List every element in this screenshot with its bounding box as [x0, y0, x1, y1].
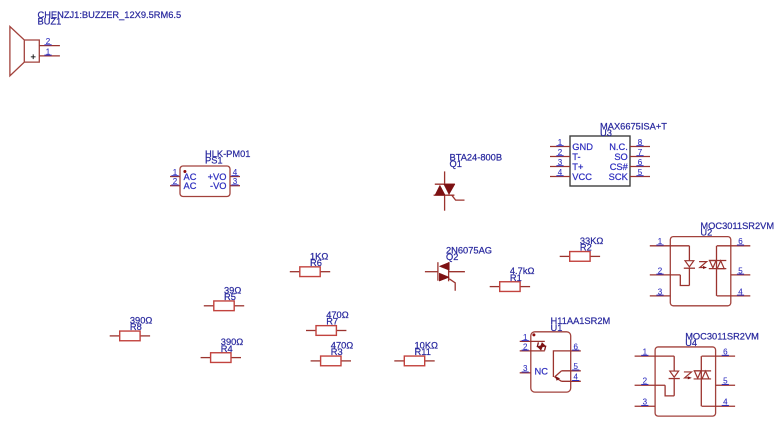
wire Q1 gate — [452, 195, 465, 200]
wire PS1 pin 2 — [170, 185, 180, 187]
wire U4 pin 5 — [716, 384, 736, 386]
U2 cathode step wire — [680, 275, 689, 286]
R8 body — [120, 331, 140, 341]
BUZ1 speaker body — [10, 27, 39, 76]
svg-text:-VO: -VO — [210, 181, 227, 191]
U1 phototransistor base lead — [553, 351, 570, 377]
wire U1 pin 5 — [562, 370, 581, 372]
U2 triac bottom bar — [709, 268, 727, 270]
svg-text:AC: AC — [184, 181, 197, 191]
svg-text:CS#: CS# — [610, 162, 629, 172]
power module PS1 — [170, 149, 250, 196]
U4 body — [655, 347, 716, 416]
svg-text:T+: T+ — [572, 162, 583, 172]
wire PS1 pin 4 — [230, 176, 240, 178]
svg-text:R11: R11 — [415, 347, 431, 357]
PS1 pin-1 dot — [183, 170, 186, 173]
U4 LED cathode bar — [669, 378, 680, 380]
svg-text:R2: R2 — [580, 243, 592, 253]
svg-text:R3: R3 — [331, 347, 343, 357]
Q2 right bar — [448, 262, 450, 281]
wire U3 pin 8 — [630, 146, 650, 148]
U2 triac top bar — [709, 260, 727, 262]
wire Q2 left terminal — [425, 271, 438, 273]
wire U1 pin 1 — [520, 340, 545, 342]
wire left lead — [306, 330, 316, 332]
wire U1 pin 4 — [562, 380, 581, 382]
resistor R7 — [306, 310, 349, 335]
resistor R3 — [311, 340, 354, 365]
U3 body — [570, 136, 630, 186]
wire right lead — [341, 360, 351, 362]
R11 body — [404, 356, 424, 366]
U2 light arrow — [699, 262, 707, 268]
wire U2 pin 2 — [650, 274, 681, 276]
Q1 triangle down — [444, 184, 455, 194]
U4 light arrow — [684, 372, 692, 378]
U2 LED anode lead — [688, 246, 690, 261]
svg-text:R5: R5 — [224, 292, 236, 302]
U4 triac bottom bar — [694, 378, 712, 380]
U4 triac triangle down — [694, 371, 701, 378]
svg-text:SO: SO — [614, 152, 627, 162]
resistor R1 — [490, 266, 535, 291]
svg-text:U1: U1 — [551, 323, 563, 333]
wire Q1 bottom terminal — [444, 195, 446, 211]
wire left lead — [490, 286, 500, 288]
wire U3 pin 3 — [550, 166, 570, 168]
wire left lead — [201, 357, 211, 359]
U1 body — [531, 332, 571, 392]
optocoupler U1 — [520, 316, 611, 392]
svg-text:R6: R6 — [310, 258, 322, 268]
U1 back-to-back LED pair — [540, 342, 546, 347]
R5 body — [214, 301, 234, 311]
svg-text:N.C.: N.C. — [609, 142, 628, 152]
svg-text:U3: U3 — [600, 128, 612, 138]
svg-text:R8: R8 — [130, 322, 142, 332]
wire right lead — [140, 335, 150, 337]
U4 LED anode lead — [673, 356, 675, 371]
resistor R11 — [394, 340, 438, 365]
wire U1 pin 6 — [571, 350, 581, 352]
resistor R5 — [204, 285, 244, 310]
resistor R6 — [290, 251, 330, 276]
wire BUZ1 pin 2 — [39, 45, 60, 47]
R1 body — [500, 282, 520, 292]
U2 light arrow head — [703, 266, 707, 269]
wire left lead — [394, 360, 404, 362]
wire Q2 right terminal — [449, 271, 465, 273]
wire BUZ1 pin 1 — [39, 55, 60, 57]
opto-triac U4 — [635, 331, 759, 416]
U2 LED cathode lead — [688, 268, 690, 285]
svg-text:SCK: SCK — [609, 172, 629, 182]
U1 phototransistor collector — [555, 371, 562, 377]
U4 light arrow head — [688, 376, 692, 379]
U2 triac triangle down — [710, 261, 717, 268]
wire U2 pin 4 — [717, 295, 751, 297]
svg-text:U4: U4 — [685, 338, 697, 348]
wire right lead — [234, 305, 244, 307]
wire right lead — [425, 360, 435, 362]
wire U3 pin 5 — [630, 176, 650, 178]
R3 body — [321, 356, 341, 366]
triac Q1 — [434, 153, 502, 211]
svg-text:T-: T- — [572, 152, 580, 162]
svg-text:R7: R7 — [326, 317, 338, 327]
resistor R4 — [201, 337, 244, 362]
U2 body — [670, 237, 731, 306]
svg-text:Q2: Q2 — [446, 252, 458, 262]
wire U3 pin 1 — [550, 146, 570, 148]
opto-triac U2 — [650, 221, 774, 306]
U1 phototransistor emitter — [555, 377, 562, 381]
U1 pin-1 dot — [532, 333, 535, 336]
svg-text:BUZ1: BUZ1 — [38, 17, 62, 27]
Q2 triangle right — [439, 273, 449, 281]
wire right lead — [336, 330, 346, 332]
svg-text:PS1: PS1 — [205, 156, 223, 166]
U1 emitter arrow head — [555, 376, 560, 381]
wire U4 pin 3 — [635, 405, 656, 407]
wire U4 pin 6 — [702, 355, 736, 357]
U4 triac main line — [700, 356, 702, 406]
triac Q2 — [425, 246, 492, 291]
Q1 triangle up — [435, 185, 445, 195]
Q1 bottom bar — [434, 194, 455, 196]
wire U2 pin 1 — [650, 245, 690, 247]
U4 triac top bar — [694, 370, 712, 372]
svg-text:Q1: Q1 — [450, 159, 462, 169]
wire U2 pin 3 — [650, 295, 671, 297]
U4 triac triangle up — [702, 371, 709, 379]
wire right lead — [590, 255, 600, 257]
wire U3 pin 2 — [550, 156, 570, 158]
wire U2 pin 5 — [731, 274, 751, 276]
wire U1 pin 3 — [520, 372, 531, 374]
svg-text:U2: U2 — [700, 228, 712, 238]
Q1 top bar — [435, 183, 455, 185]
U2 LED triangle — [685, 261, 694, 267]
wire U3 pin 7 — [630, 156, 650, 158]
R6 body — [300, 267, 320, 277]
svg-text:VCC: VCC — [572, 172, 592, 182]
wire PS1 pin 3 — [230, 185, 240, 187]
thermocouple ADC U3 — [550, 121, 667, 186]
PS1 body — [180, 166, 230, 197]
U4 cathode step wire — [665, 385, 674, 396]
buzzer BUZ1 — [10, 10, 181, 76]
wire right lead — [520, 286, 530, 288]
U4 LED cathode lead — [673, 379, 675, 396]
wire U4 pin 4 — [702, 405, 736, 407]
svg-text:NC: NC — [535, 367, 549, 377]
wire U3 pin 4 — [550, 176, 570, 178]
U2 LED cathode bar — [684, 267, 695, 269]
svg-text:R4: R4 — [221, 344, 233, 354]
U2 triac main line — [716, 246, 718, 296]
wire left lead — [110, 335, 120, 337]
wire U4 pin 1 — [635, 355, 675, 357]
R2 body — [570, 252, 590, 262]
wire Q2 gate — [449, 279, 455, 291]
svg-text:+: + — [30, 52, 35, 62]
svg-text:GND: GND — [572, 142, 593, 152]
wire PS1 pin 1 — [170, 176, 180, 178]
resistor R2 — [560, 236, 604, 261]
wire left lead — [560, 255, 570, 257]
wire Q1 top terminal — [444, 171, 446, 184]
Q2 triangle left — [439, 262, 449, 270]
Q2 left bar — [437, 262, 439, 281]
wire right lead — [231, 357, 241, 359]
wire U3 pin 6 — [630, 166, 650, 168]
wire left lead — [290, 271, 300, 273]
wire U1 pin 2 — [520, 350, 545, 352]
wire left lead — [311, 360, 321, 362]
wire right lead — [320, 271, 330, 273]
R7 body — [316, 326, 336, 336]
wire U2 pin 6 — [717, 245, 751, 247]
R4 body — [211, 353, 231, 363]
U4 LED triangle — [670, 371, 679, 377]
resistor R8 — [110, 315, 153, 340]
wire left lead — [204, 305, 214, 307]
U2 triac triangle up — [717, 261, 724, 269]
wire U4 pin 2 — [635, 384, 666, 386]
svg-text:R1: R1 — [510, 273, 522, 283]
